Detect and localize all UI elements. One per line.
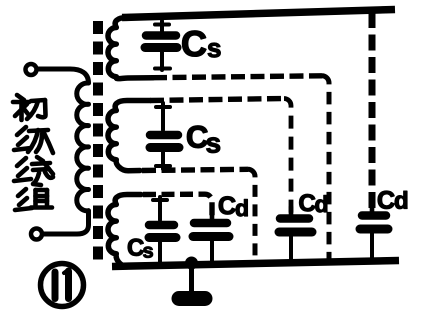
capacitor Cs2 bbox=[150, 103, 179, 169]
label 级 bbox=[14, 127, 53, 153]
svg-text:d: d bbox=[315, 191, 329, 217]
svg-text:s: s bbox=[207, 33, 221, 63]
wire (primary winding to bottom terminal) bbox=[43, 211, 89, 234]
node (bus junction) bbox=[185, 257, 198, 270]
capacitor Cs3 bbox=[149, 197, 176, 263]
wire (top rail to Cd3, dashed) bbox=[369, 12, 376, 210]
svg-text:C: C bbox=[377, 187, 395, 215]
secondary winding 1 bbox=[108, 18, 153, 79]
ground bbox=[179, 291, 205, 306]
secondary winding 3 bbox=[108, 195, 141, 267]
svg-text:C: C bbox=[181, 23, 207, 64]
secondary winding 2 bbox=[108, 101, 150, 171]
svg-text:s: s bbox=[206, 128, 222, 159]
label 初 bbox=[13, 95, 46, 120]
primary winding bbox=[77, 83, 89, 211]
svg-text:C: C bbox=[299, 190, 316, 217]
wire (top rail, winding 1 hot end) bbox=[122, 10, 395, 18]
svg-text:d: d bbox=[394, 188, 409, 215]
capacitor Cd3 bbox=[360, 204, 388, 258]
wire (winding 2 bottom, dashed, to bus) bbox=[142, 169, 248, 170]
svg-text:s: s bbox=[143, 241, 154, 263]
svg-text:d: d bbox=[235, 195, 249, 221]
wire (winding 1 bottom, dashed, to bus) bbox=[153, 76, 322, 78]
figure number 11 (circled) bbox=[41, 264, 84, 307]
wire (to ground) bbox=[189, 266, 194, 292]
label 绕 bbox=[14, 157, 53, 185]
wire (top terminal to primary winding) bbox=[37, 69, 89, 83]
terminal (primary bottom) bbox=[31, 229, 42, 240]
svg-text:C: C bbox=[218, 192, 236, 220]
capacitor Cs1 bbox=[145, 21, 177, 70]
transformer core bbox=[93, 21, 103, 266]
wire (winding 2 top, dashed, to Cd2) bbox=[150, 99, 284, 101]
wire (winding 3 top, dashed, to Cd1) bbox=[143, 194, 212, 220]
capacitor Cd1 bbox=[193, 212, 229, 262]
terminal (primary top) bbox=[26, 64, 37, 75]
label 组 bbox=[15, 189, 52, 210]
wire (bottom rail / ground bus) bbox=[112, 261, 399, 267]
capacitor Cd2 bbox=[279, 207, 312, 260]
